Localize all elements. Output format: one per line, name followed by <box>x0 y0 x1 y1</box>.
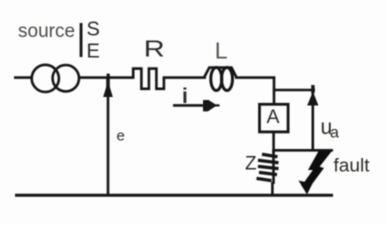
current arrow line <box>173 104 212 107</box>
wire corner down to ammeter <box>273 76 276 105</box>
label R <box>144 36 165 62</box>
arrow ua head <box>311 85 314 93</box>
impedance Z scribble dash 1 <box>262 154 278 157</box>
fault bolt arrowhead <box>299 181 313 195</box>
wire Z to rail <box>271 182 274 196</box>
svg-text:E: E <box>87 41 100 63</box>
impedance Z scribble dash 4 <box>259 172 277 174</box>
inductor L loop 2 <box>222 68 233 91</box>
svg-text:S: S <box>87 19 100 41</box>
impedance Z zigzag wire <box>272 150 275 184</box>
svg-text:Z: Z <box>245 154 257 175</box>
fault bolt stroke 2 <box>302 166 325 190</box>
wire L to corner <box>235 76 275 79</box>
junction tick <box>107 74 110 79</box>
impedance Z scribble dash 3 <box>258 166 279 168</box>
svg-text:fault: fault <box>334 156 370 176</box>
ammeter A box <box>260 104 289 132</box>
svg-text:L: L <box>215 37 228 63</box>
arrow e head <box>106 78 110 89</box>
bottom rail <box>15 194 333 197</box>
source circle 1 <box>32 65 59 92</box>
svg-text:e: e <box>117 128 125 145</box>
arrow ua line <box>311 92 314 151</box>
current arrow head <box>203 100 217 112</box>
separator bar <box>80 23 83 57</box>
wire R to L <box>163 76 206 79</box>
resistor R <box>133 69 164 89</box>
wire left stub <box>14 76 33 79</box>
inductor L loop 1 <box>211 68 222 91</box>
wire ammeter to node <box>272 132 275 153</box>
fault bolt stroke 1 <box>308 150 333 170</box>
node line <box>272 149 333 152</box>
wire source to R <box>79 76 135 79</box>
source circle 2 <box>53 65 79 91</box>
svg-text:source: source <box>18 21 75 42</box>
svg-text:a: a <box>330 125 339 142</box>
current arrow tail tick <box>214 104 220 106</box>
wire branch to ua <box>274 89 315 92</box>
impedance Z scribble dash 2 <box>258 160 279 163</box>
inductor L hump <box>204 68 237 78</box>
impedance Z scribble dash 5 <box>257 178 272 180</box>
arrow e line <box>107 80 110 196</box>
svg-text:A: A <box>267 106 280 128</box>
svg-text:R: R <box>144 36 165 62</box>
